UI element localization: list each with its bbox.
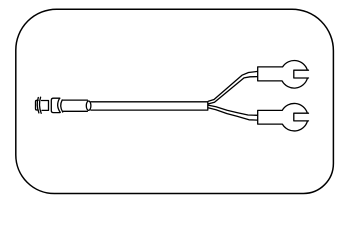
lower fork terminal bbox=[258, 103, 309, 131]
cable bbox=[91, 102, 208, 110]
plug ring arc 1 bbox=[37, 98, 39, 113]
plug ring arc 4 bbox=[61, 100, 63, 112]
upper wire line 1 bbox=[208, 71, 257, 101]
plug ring arc 3 bbox=[58, 98, 61, 112]
plug ring arc 2 bbox=[39, 97, 41, 113]
lower wire line 1 bbox=[208, 105, 258, 115]
upper wire line 2 bbox=[208, 77, 257, 104]
lower wire line 2 bbox=[208, 108, 258, 120]
plug sleeve end cap ellipse bbox=[86, 101, 91, 110]
plug sleeve cylinder bbox=[63, 100, 88, 111]
plug connector tip bbox=[36, 100, 39, 110]
plug collar section bbox=[42, 101, 49, 111]
upper fork terminal bbox=[258, 61, 309, 89]
plug barrel bbox=[51, 98, 60, 112]
